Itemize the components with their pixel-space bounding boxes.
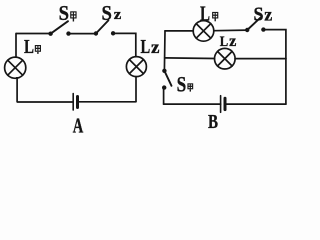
wire: circuit A bottom left horizontal xyxy=(17,101,73,103)
wire: circuit B bottom left horizontal xyxy=(164,103,221,105)
label S1 (S jia) circuit B xyxy=(177,72,194,97)
wire: circuit A right edge below lamp xyxy=(135,77,137,102)
switch S2 (S yi) circuit A xyxy=(94,20,116,35)
switch S1 (S jia) circuit B xyxy=(162,69,172,90)
wire: circuit A left edge above lamp xyxy=(15,34,17,58)
label S1 (S jia) circuit A xyxy=(59,1,77,25)
lamp L1 (L jia) circuit B xyxy=(193,21,214,42)
battery circuit B xyxy=(221,96,225,113)
svg-text:B: B xyxy=(208,111,218,133)
wire: circuit A top middle between switches xyxy=(69,33,96,35)
wire: circuit B middle branch right horizontal xyxy=(235,58,286,60)
switch S2 (S yi) circuit B xyxy=(245,18,266,33)
svg-text:z: z xyxy=(151,37,160,57)
svg-text:L: L xyxy=(200,2,210,26)
svg-text:S: S xyxy=(102,1,112,25)
svg-text:A: A xyxy=(73,113,84,135)
lamp L2 (L yi) circuit A xyxy=(126,57,146,77)
wire: circuit B top-left horizontal xyxy=(165,30,193,32)
svg-text:L: L xyxy=(24,36,34,58)
lamp L1 (L jia) circuit A xyxy=(5,57,26,78)
switch S1 (S jia) circuit A xyxy=(48,21,70,36)
svg-text:L: L xyxy=(220,34,229,50)
label L1 (L jia) circuit A xyxy=(24,36,41,58)
wire: circuit B left edge above switch xyxy=(163,31,166,71)
wire: circuit B top middle horizontal xyxy=(214,29,247,32)
label S2 (S yi) circuit A xyxy=(102,1,122,25)
svg-text:S: S xyxy=(177,72,187,97)
battery circuit A xyxy=(73,94,77,111)
wire: circuit B bottom right horizontal xyxy=(227,103,286,105)
label S2 (S yi) circuit B xyxy=(254,3,273,25)
label L1 (L jia) circuit B xyxy=(200,2,218,26)
label L2 (L yi) circuit B xyxy=(220,33,237,50)
wire: circuit A left edge below lamp xyxy=(15,78,18,102)
label L2 (L yi) circuit A xyxy=(141,36,160,58)
svg-text:S: S xyxy=(59,1,69,25)
wire: circuit A bottom right horizontal xyxy=(79,101,136,103)
svg-text:z: z xyxy=(114,7,122,23)
wire: circuit A top-left horizontal xyxy=(16,33,50,35)
svg-text:L: L xyxy=(141,36,151,58)
lamp L2 (L yi) circuit B xyxy=(215,48,236,69)
wire: circuit B left edge below switch xyxy=(163,88,165,104)
wire: circuit B middle branch left horizontal xyxy=(165,57,215,60)
wire: circuit B top-right horizontal and right edge xyxy=(263,30,286,104)
svg-text:z: z xyxy=(229,33,236,50)
svg-text:z: z xyxy=(264,4,272,24)
wire: circuit A top-right horizontal and right edge down to lamp xyxy=(113,33,136,56)
svg-text:S: S xyxy=(254,3,264,25)
